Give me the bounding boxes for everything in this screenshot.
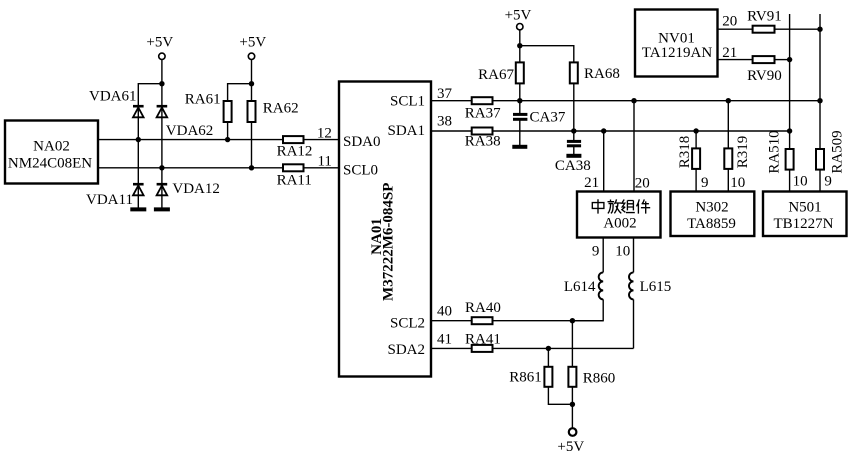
svg-text:NA02: NA02 [33,138,70,154]
svg-text:TA1219AN: TA1219AN [642,45,713,61]
wire RA61 to SDA0 net [227,122,229,140]
power +5V P1 [146,35,173,60]
wire [304,167,340,169]
wire branch to RA61 [228,84,252,101]
diode VDA61 [89,88,144,117]
resistor RA510 [767,130,794,173]
wire vertical RA509 branch [819,14,821,149]
node junction P2 branch [249,81,254,86]
node junction SDA2/R861 [546,346,551,351]
svg-text:12: 12 [317,125,332,141]
svg-text:21: 21 [722,45,737,61]
svg-text:VDA12: VDA12 [172,181,220,197]
IC NA02 box [5,121,98,184]
svg-text:RA68: RA68 [584,66,620,82]
svg-text:RA61: RA61 [185,92,221,108]
IC N501 box [763,192,847,237]
svg-text:SCL1: SCL1 [390,94,425,110]
svg-text:R318: R318 [677,136,693,169]
svg-text:M37222M6-084SP: M37222M6-084SP [380,183,396,301]
diode VDA12 [157,181,220,197]
wire NV01 pin 20 [718,28,753,30]
resistor RA38 [465,128,501,150]
wire R318 to N302 pin 9 [695,169,697,192]
svg-text:+5V: +5V [557,439,584,455]
resistor RA62 [248,101,299,122]
svg-text:11: 11 [317,153,331,169]
IC N302 box [671,192,755,237]
svg-text:N501: N501 [788,199,821,215]
svg-text:10: 10 [615,244,630,260]
wire SDA1 net pin 38 [431,130,472,132]
capacitor CA38 [555,131,591,174]
IC NA01 box [339,82,431,377]
resistor RV91 [747,8,782,32]
svg-text:RA12: RA12 [277,143,313,159]
resistor R318 [677,136,700,169]
svg-text:TA8859: TA8859 [687,216,736,232]
svg-text:RV91: RV91 [747,8,782,24]
resistor RA509 [816,130,846,173]
wire A002 pin 20 [633,101,635,192]
wire NV01 pin 21 [718,59,753,61]
resistor RA12 [277,136,313,159]
node junction on SCL0 [159,165,164,170]
wire R860 from SCL2 node down [571,321,573,367]
wire SCL0 net from NA02 to NA01 pin 11 [98,167,283,169]
svg-text:RA509: RA509 [830,130,846,173]
svg-text:9: 9 [592,244,600,260]
svg-text:21: 21 [584,175,599,191]
node junction R318 on SDA1 [693,128,698,133]
svg-text:NV01: NV01 [658,30,695,46]
wire L615 to SDA2 net [633,299,635,348]
svg-text:RA38: RA38 [465,134,501,150]
svg-text:CA37: CA37 [530,109,566,125]
wire R861 from SDA2 node down [547,348,549,366]
resistor RA11 [277,164,312,188]
power +5V P2 [239,35,266,60]
resistor RA61 [185,92,232,122]
wire from +5V P1 down [161,60,163,107]
svg-text:NM24C08EN: NM24C08EN [8,155,92,171]
node junction bottom +5V [570,402,575,407]
svg-text:RV90: RV90 [747,68,782,84]
wire RA509 to N501 pin 9 [819,170,821,192]
node junction on SDA0 [225,137,230,142]
IC NV01 box [635,10,718,77]
svg-text:+5V: +5V [505,8,532,24]
diode VDA62 [157,106,214,139]
svg-text:9: 9 [824,174,832,190]
svg-text:RA67: RA67 [478,67,514,83]
svg-text:SCL2: SCL2 [390,316,425,332]
svg-text:R860: R860 [583,371,616,387]
label 中放组件 (drawn strokes) [592,199,650,213]
svg-text:37: 37 [437,86,453,102]
wire SCL2 net [493,320,604,322]
wire SDA1 net [493,130,790,132]
wire RA67 to SCL1 net [519,83,521,100]
svg-text:40: 40 [437,304,452,320]
node junction A002 pin21 on SDA1 [601,128,606,133]
resistor R861 [509,367,552,387]
wire A002 pin 10 [633,238,635,273]
inductor L614 [564,272,603,299]
node junction SDA1 end [787,128,792,133]
wire RA510 to N501 pin 10 [789,170,791,192]
svg-text:VDA11: VDA11 [86,192,133,208]
node junction R319 on SCL1 [726,98,731,103]
svg-text:+5V: +5V [239,35,266,51]
wire SCL2 net pin 40 [431,320,472,322]
wire A002 pin 9 [602,238,604,273]
svg-text:L615: L615 [640,279,672,295]
svg-text:N302: N302 [695,199,728,215]
wire R318 top [695,131,697,148]
svg-text:R861: R861 [509,369,542,385]
ground [512,145,527,149]
inductor L615 [629,272,671,299]
power +5V P4 [557,428,584,455]
wire A002 pin 21 [603,131,605,192]
svg-text:20: 20 [635,176,650,192]
resistor R319 [724,136,751,169]
node junction on SDA0 [136,137,141,142]
wire SDA2 net pin 41 [431,347,472,349]
node junction RV90/RA510 [787,57,792,62]
svg-text:RA11: RA11 [277,172,312,188]
IC A002 box [577,192,661,238]
svg-text:9: 9 [701,175,709,191]
ground [130,207,146,211]
resistor RA41 [465,331,501,352]
svg-text:RA510: RA510 [767,130,783,173]
wire R860 bottom [571,387,573,429]
power +5V P3 [505,8,532,30]
wire VDA62 column down to ground [161,106,163,209]
svg-text:10: 10 [730,175,745,191]
svg-text:VDA62: VDA62 [166,123,214,139]
node junction SCL1 end [817,98,822,103]
wire L614 to SCL2 net [572,299,603,320]
resistor RA68 [570,62,620,83]
svg-text:SDA1: SDA1 [387,123,425,139]
resistor RA67 [478,62,524,83]
wire SDA0 net from NA02 to NA01 pin 12 [98,139,283,141]
capacitor CA37 [513,101,566,147]
wire R319 to N302 pin 10 [727,169,729,192]
svg-text:RA37: RA37 [465,106,501,122]
wire SCL1 net [493,100,821,102]
svg-text:CA38: CA38 [555,158,591,174]
wire vertical RA510 branch [789,14,791,149]
svg-text:20: 20 [722,14,737,30]
node junction P1 branch [159,81,164,86]
diode VDA11 [86,184,144,208]
wire RA68 to SDA1 net [573,83,575,131]
wire branch to RA68 [520,46,574,63]
node junction SCL2/R860 [570,318,575,323]
resistor R860 [568,367,615,387]
node junction on SCL1 [517,98,522,103]
resistor RA37 [465,97,501,121]
wire from +5V P3 down [519,30,521,63]
svg-text:TB1227N: TB1227N [774,216,834,232]
resistor RV90 [747,56,782,84]
wire R861 bottom to R860 [548,387,572,405]
svg-text:RA40: RA40 [465,300,501,316]
svg-text:VDA61: VDA61 [89,88,137,104]
svg-text:SDA2: SDA2 [387,342,425,358]
svg-text:L614: L614 [564,279,596,295]
wire RV90 to node [775,59,790,61]
svg-text:SDA0: SDA0 [343,134,381,150]
node junction on SDA1 [571,128,576,133]
node junction P3 branch [517,43,522,48]
wire from +5V P2 down [251,60,253,102]
wire RV91 to node [775,28,821,30]
svg-text:SCL0: SCL0 [343,163,378,179]
svg-text:A002: A002 [603,216,636,232]
node junction on SCL0 [249,165,254,170]
svg-text:38: 38 [437,113,452,129]
wire R319 top [727,101,729,149]
resistor RA40 [465,300,501,324]
wire SCL1 net pin 37 [431,100,472,102]
svg-text:RA41: RA41 [465,331,501,347]
svg-text:10: 10 [793,174,808,190]
ground [566,154,581,158]
node junction RV91/RA509 [817,27,822,32]
svg-text:+5V: +5V [146,35,173,51]
node junction A002 pin20 on SCL1 [631,98,636,103]
wire branch to VDA61 column down to ground [138,84,162,210]
wire RA62 to SCL0 net [251,122,253,168]
svg-text:RA62: RA62 [263,101,299,117]
svg-text:41: 41 [437,332,452,348]
wire [304,139,340,141]
svg-text:R319: R319 [735,136,751,169]
ground [154,207,170,211]
wire SDA2 net [493,347,634,349]
